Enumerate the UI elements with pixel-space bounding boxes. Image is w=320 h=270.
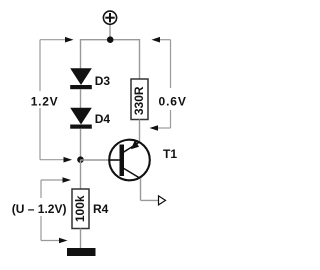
svg-text:D3: D3 <box>95 74 111 88</box>
power supply + symbol <box>103 11 116 24</box>
label (U - 1.2V) <box>12 202 67 216</box>
svg-text:330R: 330R <box>132 86 146 115</box>
wire rail to 330R <box>139 39 141 79</box>
transistor T1 <box>109 140 150 181</box>
ground <box>67 248 96 256</box>
voltage annotation 1.2V bracket <box>40 37 74 163</box>
label T1 <box>163 147 177 161</box>
wire top rail <box>81 39 140 41</box>
label D4 <box>95 112 111 126</box>
node supply junction dot <box>107 36 114 43</box>
wire collector down <box>140 178 142 200</box>
wire R4 to ground <box>80 229 82 250</box>
svg-text:(U – 1.2V): (U – 1.2V) <box>12 202 67 216</box>
output open arrow <box>159 196 166 205</box>
voltage annotation (U - 1.2V) bracket <box>41 177 71 243</box>
label R4 <box>93 202 109 216</box>
wire base node to transistor <box>81 159 119 161</box>
diode D3 <box>70 68 92 89</box>
wire D3 cathode to D4 anode <box>80 89 82 109</box>
label D3 <box>95 74 111 88</box>
resistor R4 <box>72 189 89 229</box>
wire rail to D3 anode <box>80 39 82 69</box>
resistor 330R <box>131 79 148 120</box>
label 1.2V <box>31 95 59 109</box>
label 0.6V <box>159 95 187 109</box>
svg-text:T1: T1 <box>163 147 177 161</box>
svg-text:1.2V: 1.2V <box>31 95 59 109</box>
wire D4 cathode to base node <box>80 129 82 160</box>
wire supply drop <box>109 24 111 40</box>
svg-text:D4: D4 <box>95 112 111 126</box>
svg-text:100k: 100k <box>73 195 87 222</box>
wire base node to R4 <box>80 160 82 189</box>
wire 330R to emitter <box>139 120 141 143</box>
svg-text:0.6V: 0.6V <box>159 95 187 109</box>
node base junction dot <box>77 156 84 163</box>
wire collector out <box>141 199 159 201</box>
svg-text:R4: R4 <box>93 202 109 216</box>
voltage annotation 0.6V bracket <box>150 37 171 131</box>
diode D4 <box>70 108 92 129</box>
